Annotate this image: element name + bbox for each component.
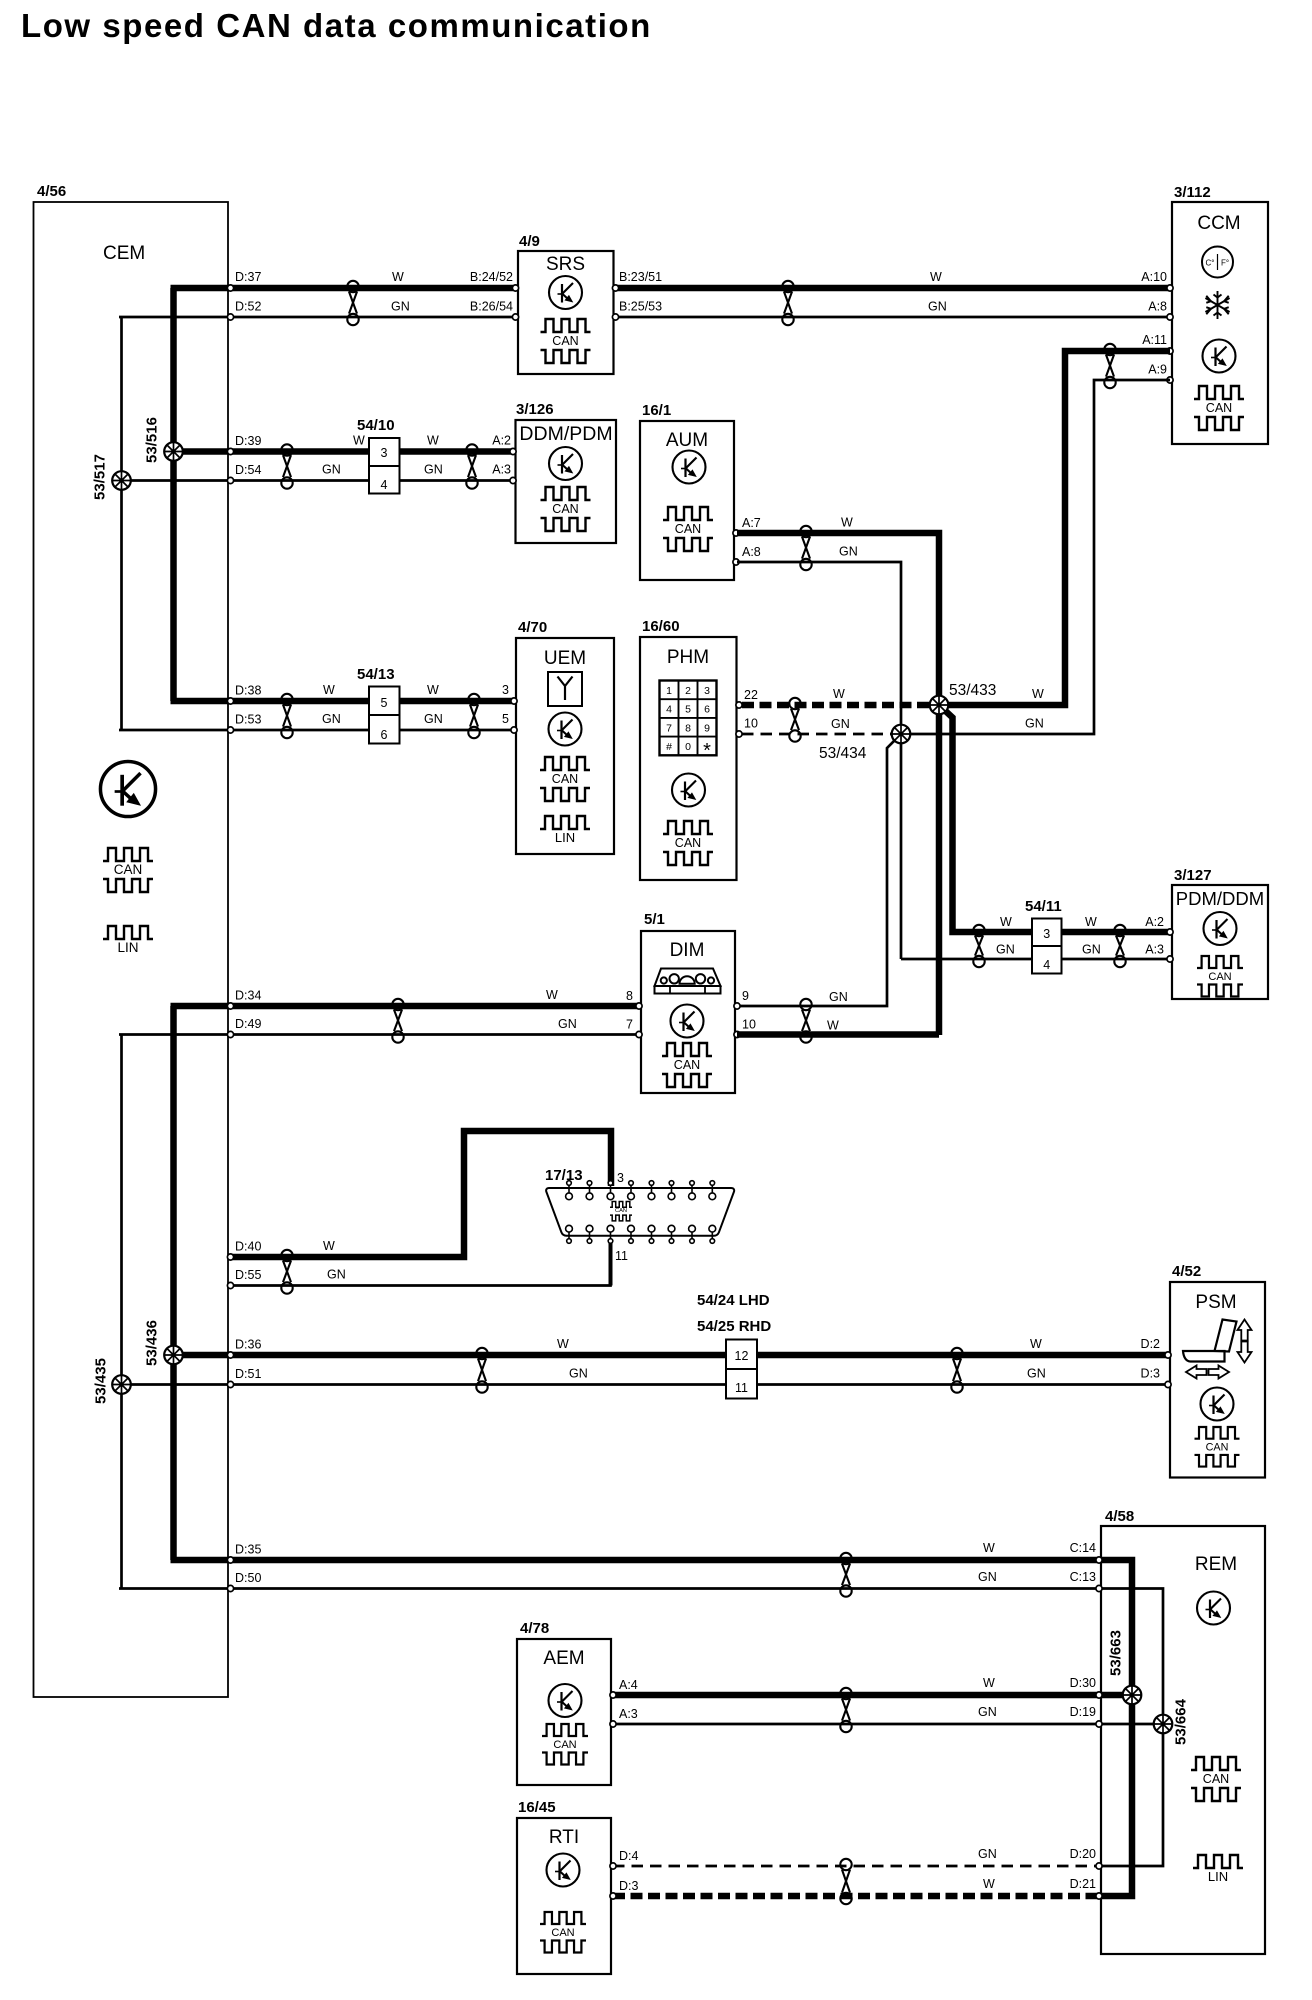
REM CAN icon: [1191, 1757, 1241, 1801]
connector 54/10: [369, 438, 400, 494]
pin CCM A:8: [1167, 314, 1173, 320]
wire D:55 GN CEM to connector 17/13 pin 11: [231, 1242, 611, 1286]
wire D:37 W CEM to SRS B:24/52: [171, 285, 517, 292]
ECU box 4/70 UEM: [516, 638, 614, 854]
svg-text:F°: F°: [1221, 259, 1229, 268]
svg-text:17/13: 17/13: [545, 1167, 583, 1184]
ECU box 5/1 DIM: [641, 931, 735, 1093]
twisted pair symbol RTI wires: [840, 1859, 851, 1904]
wire D:52 GN CEM to SRS B:26/54: [119, 316, 516, 319]
svg-text:A:2: A:2: [492, 434, 511, 448]
svg-text:2: 2: [685, 685, 691, 697]
svg-text:CAN: CAN: [552, 334, 578, 348]
ECU box 16/1 AUM: [640, 421, 734, 580]
svg-text:C:14: C:14: [1070, 1541, 1096, 1555]
svg-text:D:20: D:20: [1070, 1847, 1096, 1861]
pin SRS B:23/51: [612, 285, 618, 291]
junction 53/433: [930, 696, 949, 715]
svg-text:W: W: [557, 1337, 569, 1351]
PHM keypad icon: [660, 681, 717, 756]
RTI CAN icon: [540, 1912, 586, 1952]
wire GN AUM branch to 54/11 pin 4: [901, 958, 1032, 961]
pin DIM 10: [734, 1031, 740, 1037]
pin CCM A:9: [1167, 377, 1173, 383]
UEM antenna icon: [548, 672, 582, 706]
svg-text:3: 3: [502, 683, 509, 697]
PSM up-down arrow icon: [1238, 1320, 1252, 1363]
DIM CAN icon: [662, 1043, 712, 1087]
svg-text:GN: GN: [978, 1847, 997, 1861]
wire D:34 W CEM to DIM pin 8: [171, 1003, 640, 1010]
svg-text:W: W: [827, 1019, 839, 1033]
svg-text:D:52: D:52: [235, 300, 261, 314]
wire branch 53/433 to 54/11 pin 3: [939, 705, 1032, 932]
wire W junction 53/433 to CCM A:11: [939, 351, 1170, 705]
twisted pair symbol DIM right: [800, 999, 811, 1043]
svg-text:GN: GN: [322, 463, 341, 477]
wire AEM A:4 W to junction 53/663: [613, 1692, 1132, 1699]
svg-text:W: W: [427, 434, 439, 448]
wire GN 54/10 to DDM A:3: [399, 479, 513, 482]
pin RTI D:4: [610, 1863, 616, 1869]
svg-text:D:2: D:2: [1141, 1337, 1161, 1351]
wire D:38 W CEM to connector 54/13 pin 5: [171, 698, 370, 705]
svg-text:4/56: 4/56: [37, 183, 66, 200]
svg-text:10: 10: [742, 1018, 756, 1032]
CCM K-line symbol: [1203, 340, 1236, 373]
wire CEM bus W lower (D:34-D:36-D:35): [170, 1006, 177, 1560]
svg-text:LIN: LIN: [117, 940, 138, 955]
pin AUM A:8: [733, 559, 739, 565]
CEM edge pins: [227, 285, 233, 291]
pin PDM A:2: [1167, 929, 1173, 935]
svg-text:1: 1: [666, 685, 672, 697]
wire D:50 GN CEM to REM C:13: [119, 1587, 1099, 1590]
svg-text:16/45: 16/45: [518, 1799, 556, 1816]
PSM CAN icon: [1195, 1427, 1240, 1467]
SRS CAN icon: [541, 319, 591, 363]
wire W 54/10 to DDM A:2: [399, 448, 513, 455]
DDM K-line symbol: [549, 447, 582, 480]
svg-text:GN: GN: [1082, 943, 1101, 957]
svg-text:12: 12: [735, 1349, 749, 1363]
svg-text:8: 8: [685, 722, 691, 734]
svg-text:LIN: LIN: [555, 830, 575, 845]
CCM temperature icon: [1202, 247, 1233, 278]
CEM K-line symbol: [100, 761, 155, 816]
junction 53/517: [112, 471, 131, 490]
ECU box 4/9 SRS: [518, 251, 614, 374]
junction 53/516: [164, 442, 183, 461]
svg-text:GN: GN: [839, 545, 858, 559]
svg-text:GN: GN: [978, 1705, 997, 1719]
pin PSM D:2: [1165, 1352, 1171, 1358]
ECU box 4/52 PSM: [1170, 1282, 1265, 1478]
REM LIN icon: [1193, 1855, 1243, 1884]
pin DIM 9: [734, 1003, 740, 1009]
PDM CAN icon: [1197, 956, 1243, 996]
svg-text:D:53: D:53: [235, 713, 261, 727]
svg-text:5: 5: [502, 712, 509, 726]
svg-text:D:50: D:50: [235, 1571, 261, 1585]
svg-text:Low speed CAN data communicati: Low speed CAN data communication: [21, 7, 652, 44]
svg-text:D:37: D:37: [235, 270, 261, 284]
svg-text:CAN: CAN: [1208, 971, 1231, 983]
twisted pair symbol AEM wires: [840, 1688, 851, 1732]
svg-text:54/24 LHD: 54/24 LHD: [697, 1292, 770, 1309]
svg-text:A:9: A:9: [1148, 363, 1167, 377]
pin UEM 3: [511, 698, 517, 704]
pin REM C:14: [1096, 1557, 1102, 1563]
svg-text:10: 10: [744, 717, 758, 731]
svg-text:5/1: 5/1: [644, 911, 665, 928]
wire D:54 GN CEM to connector 54/10 pin 4: [119, 479, 369, 482]
svg-text:GN: GN: [391, 300, 410, 314]
svg-text:W: W: [546, 988, 558, 1002]
pin UEM 5: [511, 727, 517, 733]
PSM seat icon: [1183, 1320, 1237, 1362]
wire REM internal GN bus C:13 to D:20: [1099, 1589, 1163, 1867]
svg-text:GN: GN: [558, 1017, 577, 1031]
wire D:53 GN CEM to connector 54/13 pin 6: [119, 729, 369, 732]
svg-text:D:36: D:36: [235, 1338, 261, 1352]
pin SRS B:24/52: [512, 285, 518, 291]
svg-text:A:3: A:3: [1145, 943, 1164, 957]
connector 54/11: [1032, 919, 1062, 974]
junction 53/436: [164, 1346, 183, 1365]
ECU box 3/126 DDM/PDM: [516, 420, 617, 543]
svg-text:4/58: 4/58: [1105, 1508, 1134, 1525]
svg-text:5: 5: [381, 696, 388, 710]
twisted pair symbol D:36/D:51: [476, 1348, 487, 1393]
svg-text:RTI: RTI: [549, 1827, 579, 1848]
wire D:49 GN CEM to DIM pin 7: [119, 1033, 639, 1036]
CEM LIN icon: [103, 926, 153, 955]
svg-text:A:3: A:3: [619, 1707, 638, 1721]
svg-text:GN: GN: [1027, 1367, 1046, 1381]
CCM CAN icon: [1194, 386, 1244, 430]
svg-text:DIM: DIM: [670, 940, 705, 961]
svg-text:W: W: [1000, 915, 1012, 929]
svg-text:D:21: D:21: [1070, 1877, 1096, 1891]
junction 53/663: [1123, 1686, 1142, 1705]
UEM LIN icon: [540, 816, 590, 845]
PHM CAN icon: [663, 821, 713, 865]
svg-text:SRS: SRS: [546, 254, 585, 275]
svg-text:3: 3: [617, 1171, 624, 1185]
svg-text:CAN: CAN: [1203, 1772, 1229, 1786]
wire D:39 W CEM to connector 54/10 pin 3: [171, 448, 370, 455]
twisted pair symbol 54/13-UEM: [468, 694, 479, 738]
wire 17/13 pin 11 drop: [609, 1242, 613, 1286]
AEM CAN icon: [542, 1724, 588, 1764]
AEM K-line symbol: [549, 1684, 582, 1717]
svg-text:16/1: 16/1: [642, 402, 671, 419]
twisted pair symbol CCM A:11/A:9: [1104, 344, 1115, 388]
svg-text:GN: GN: [424, 712, 443, 726]
pin CCM A:10: [1167, 285, 1173, 291]
pin SRS B:25/53: [612, 314, 618, 320]
svg-text:PHM: PHM: [667, 647, 709, 668]
CCM snowflake icon: [1205, 291, 1229, 319]
svg-text:A:4: A:4: [619, 1678, 638, 1692]
svg-text:4: 4: [1043, 958, 1050, 972]
RTI K-line symbol: [547, 1854, 580, 1887]
ECU box 16/45 RTI: [517, 1818, 611, 1974]
svg-text:W: W: [323, 1239, 335, 1253]
pin PDM A:3: [1167, 956, 1173, 962]
svg-text:W: W: [427, 683, 439, 697]
svg-text:CAN: CAN: [551, 1927, 574, 1939]
svg-text:B:25/53: B:25/53: [619, 300, 662, 314]
svg-text:GN: GN: [829, 990, 848, 1004]
PHM K-line symbol: [672, 774, 705, 807]
svg-text:53/435: 53/435: [93, 1358, 110, 1404]
ECU box 4/78 AEM: [517, 1639, 611, 1785]
twisted pair symbol D:40/D:55: [281, 1250, 292, 1294]
connector 54/24 LHD 54/25 RHD: [726, 1340, 757, 1399]
svg-text:6: 6: [704, 704, 710, 716]
svg-text:8: 8: [626, 989, 633, 1003]
svg-text:A:10: A:10: [1141, 270, 1167, 284]
wire GN 54/11 to PDM A:3: [1062, 958, 1169, 961]
svg-text:AUM: AUM: [666, 430, 708, 451]
twisted pair symbol 54/11-PDM: [1114, 925, 1125, 967]
UEM K-line symbol: [549, 713, 582, 746]
svg-text:3: 3: [704, 685, 710, 697]
pin AEM A:4: [610, 1692, 616, 1698]
svg-text:D:4: D:4: [619, 1849, 639, 1863]
svg-text:54/13: 54/13: [357, 666, 395, 683]
twisted pair symbol D:35/D:50: [840, 1553, 851, 1597]
wire REM internal W bus C:14 to D:21: [1099, 1560, 1132, 1896]
svg-text:4: 4: [666, 704, 672, 716]
pin RTI D:3: [610, 1893, 616, 1899]
svg-text:7: 7: [666, 722, 672, 734]
17/13 pins: [566, 1181, 573, 1244]
CEM CAN icon: [103, 848, 153, 892]
twisted pair symbol left of 54/11: [973, 925, 984, 967]
twisted pair symbol D:34/D:49: [392, 999, 403, 1043]
twisted pair symbol CEM-SRS: [347, 281, 358, 325]
svg-text:53/436: 53/436: [144, 1320, 161, 1366]
svg-text:D:55: D:55: [235, 1268, 261, 1282]
svg-text:5: 5: [685, 704, 691, 716]
svg-text:LIN: LIN: [1208, 1869, 1228, 1884]
svg-text:B:26/54: B:26/54: [470, 300, 513, 314]
svg-text:53/663: 53/663: [1108, 1630, 1125, 1676]
svg-text:GN: GN: [928, 300, 947, 314]
svg-text:CAN: CAN: [1206, 401, 1232, 415]
svg-text:53/516: 53/516: [144, 417, 161, 463]
wire AEM A:3 GN to junction 53/664: [613, 1723, 1163, 1726]
svg-text:4/52: 4/52: [1172, 1263, 1201, 1280]
PDM K-line symbol: [1204, 912, 1237, 945]
wire AUM A:8 GN: [737, 562, 901, 959]
svg-text:W: W: [930, 270, 942, 284]
svg-text:53/434: 53/434: [819, 745, 867, 762]
svg-text:DDM/PDM: DDM/PDM: [519, 423, 612, 445]
junction 53/434: [892, 725, 911, 744]
pin REM D:19: [1096, 1721, 1102, 1727]
svg-text:GN: GN: [978, 1570, 997, 1584]
svg-text:B:23/51: B:23/51: [619, 270, 662, 284]
svg-text:A:8: A:8: [742, 545, 761, 559]
svg-text:54/25 RHD: 54/25 RHD: [697, 1318, 771, 1335]
twisted pair symbol PHM: [789, 698, 800, 742]
svg-text:A:3: A:3: [492, 463, 511, 477]
svg-text:D:51: D:51: [235, 1367, 261, 1381]
svg-text:D:3: D:3: [1141, 1367, 1161, 1381]
svg-text:CAN: CAN: [552, 502, 578, 516]
svg-text:GN: GN: [996, 943, 1015, 957]
wire SRS B:23/51 W to CCM A:10: [615, 285, 1170, 292]
pin DDM A:3: [510, 477, 516, 483]
svg-text:W: W: [983, 1877, 995, 1891]
svg-text:GN: GN: [1025, 717, 1044, 731]
wire CEM bus W upper (D:37-D:39-D:38): [170, 288, 177, 701]
svg-text:GN: GN: [424, 463, 443, 477]
svg-text:W: W: [392, 270, 404, 284]
svg-text:D:3: D:3: [619, 1879, 639, 1893]
pin REM D:30: [1096, 1692, 1102, 1698]
svg-text:CAN: CAN: [675, 836, 701, 850]
svg-text:CEM: CEM: [103, 243, 145, 264]
junction 53/664: [1154, 1715, 1173, 1734]
svg-text:GN: GN: [831, 717, 850, 731]
UEM CAN icon: [540, 757, 590, 801]
svg-text:W: W: [1030, 1337, 1042, 1351]
pin PSM D:3: [1165, 1381, 1171, 1387]
twisted pair symbol 54/10-DDM: [466, 444, 477, 488]
svg-text:W: W: [983, 1541, 995, 1555]
svg-text:W: W: [353, 434, 365, 448]
17/13 mini CAN icon: [610, 1202, 632, 1221]
wire W 54/24 to PSM D:2: [757, 1352, 1168, 1359]
twisted pair symbol near PSM: [951, 1348, 962, 1393]
twisted pair symbol AUM: [800, 526, 811, 570]
svg-text:7: 7: [626, 1018, 633, 1032]
svg-text:D:30: D:30: [1070, 1676, 1096, 1690]
svg-text:A:7: A:7: [742, 516, 761, 530]
svg-text:9: 9: [704, 722, 710, 734]
svg-text:W: W: [833, 687, 845, 701]
svg-text:4/70: 4/70: [518, 619, 547, 636]
pin PHM 22: [736, 702, 742, 708]
svg-text:54/11: 54/11: [1025, 898, 1062, 915]
svg-text:AEM: AEM: [543, 1648, 584, 1669]
svg-text:D:35: D:35: [235, 1543, 261, 1557]
connector 54/13: [369, 687, 400, 744]
pin CCM A:11: [1167, 348, 1173, 354]
svg-text:53/433: 53/433: [949, 682, 996, 699]
svg-text:54/10: 54/10: [357, 417, 395, 434]
svg-text:CCM: CCM: [1197, 213, 1240, 234]
svg-text:4/9: 4/9: [519, 233, 540, 250]
svg-text:GN: GN: [322, 712, 341, 726]
svg-text:D:54: D:54: [235, 463, 261, 477]
svg-text:D:38: D:38: [235, 684, 261, 698]
svg-text:53/664: 53/664: [1173, 1698, 1190, 1745]
svg-text:D:19: D:19: [1070, 1705, 1096, 1719]
svg-text:D:34: D:34: [235, 989, 261, 1003]
wire RTI D:3 W dashed to REM D:21: [613, 1893, 1099, 1900]
wire AUM A:7 W: [737, 533, 939, 1035]
PSM K-line symbol: [1201, 1388, 1234, 1421]
wire CEM bus GN lower (D:49-D:51-D:50): [120, 1035, 123, 1589]
svg-text:CAN: CAN: [675, 522, 701, 536]
pin REM C:13: [1096, 1585, 1102, 1591]
DDM CAN icon: [541, 487, 591, 531]
ECU box 3/127 PDM/DDM: [1172, 885, 1268, 999]
svg-text:C°: C°: [1206, 259, 1215, 268]
wire PHM 10 GN dashed to junction 53/434: [742, 733, 901, 736]
wire GN 54/24 to PSM D:3: [757, 1383, 1168, 1386]
svg-text:A:11: A:11: [1142, 333, 1167, 347]
SRS K-line symbol: [549, 276, 582, 309]
pin AEM A:3: [610, 1721, 616, 1727]
ECU box 16/60 PHM: [640, 637, 737, 880]
svg-text:UEM: UEM: [544, 648, 586, 669]
REM K-line symbol: [1197, 1592, 1230, 1625]
svg-text:B:24/52: B:24/52: [470, 270, 513, 284]
svg-text:4/78: 4/78: [520, 1620, 549, 1637]
PSM fore-aft arrows icon: [1186, 1366, 1229, 1379]
svg-text:A:8: A:8: [1148, 300, 1167, 314]
svg-text:D:40: D:40: [235, 1240, 261, 1254]
twisted pair symbol CEM-54/10: [281, 444, 292, 488]
svg-text:CAN: CAN: [553, 1739, 576, 1751]
wire D:40 W CEM to connector 17/13 pin 3: [231, 1131, 611, 1257]
svg-text:W: W: [983, 1676, 995, 1690]
svg-text:W: W: [1085, 915, 1097, 929]
svg-text:D:39: D:39: [235, 434, 261, 448]
svg-text:CAN: CAN: [674, 1058, 700, 1072]
wire W 54/11 to PDM A:2: [1062, 929, 1169, 936]
twisted pair symbol SRS-CCM: [782, 281, 793, 325]
wire GN junction 53/434 to CCM A:9: [901, 380, 1170, 734]
wire GN 54/13 to UEM pin 5: [399, 729, 514, 732]
wire W 54/13 to UEM pin 3: [399, 698, 514, 705]
svg-text:3: 3: [1043, 927, 1050, 941]
DIM K-line symbol: [671, 1005, 704, 1038]
svg-text:CAN: CAN: [114, 862, 143, 877]
wire SRS B:25/53 GN to CCM A:8: [615, 316, 1170, 319]
svg-text:C:13: C:13: [1070, 1570, 1096, 1584]
svg-text:4: 4: [381, 478, 388, 492]
svg-text:3/112: 3/112: [1174, 184, 1211, 201]
wire RTI D:4 GN dashed to REM D:20: [613, 1865, 1099, 1868]
DIM instrument cluster icon: [655, 969, 721, 994]
svg-text:3: 3: [381, 446, 388, 460]
svg-text:CAN: CAN: [1206, 1441, 1229, 1453]
pin REM D:20: [1096, 1863, 1102, 1869]
svg-text:W: W: [841, 516, 853, 530]
svg-text:A:2: A:2: [1145, 915, 1164, 929]
AUM K-line symbol: [673, 451, 706, 484]
pin AUM A:7: [733, 530, 739, 536]
svg-text:GN: GN: [327, 1268, 346, 1282]
wire DIM pin 10 W: [737, 1031, 939, 1038]
pin DIM 7: [636, 1031, 642, 1037]
svg-text:GN: GN: [569, 1367, 588, 1381]
svg-text:#: #: [666, 741, 672, 753]
pin REM D:21: [1096, 1893, 1102, 1899]
svg-text:16/60: 16/60: [642, 618, 680, 635]
AUM CAN icon: [663, 507, 713, 551]
svg-text:6: 6: [381, 728, 388, 742]
pin DDM A:2: [510, 448, 516, 454]
